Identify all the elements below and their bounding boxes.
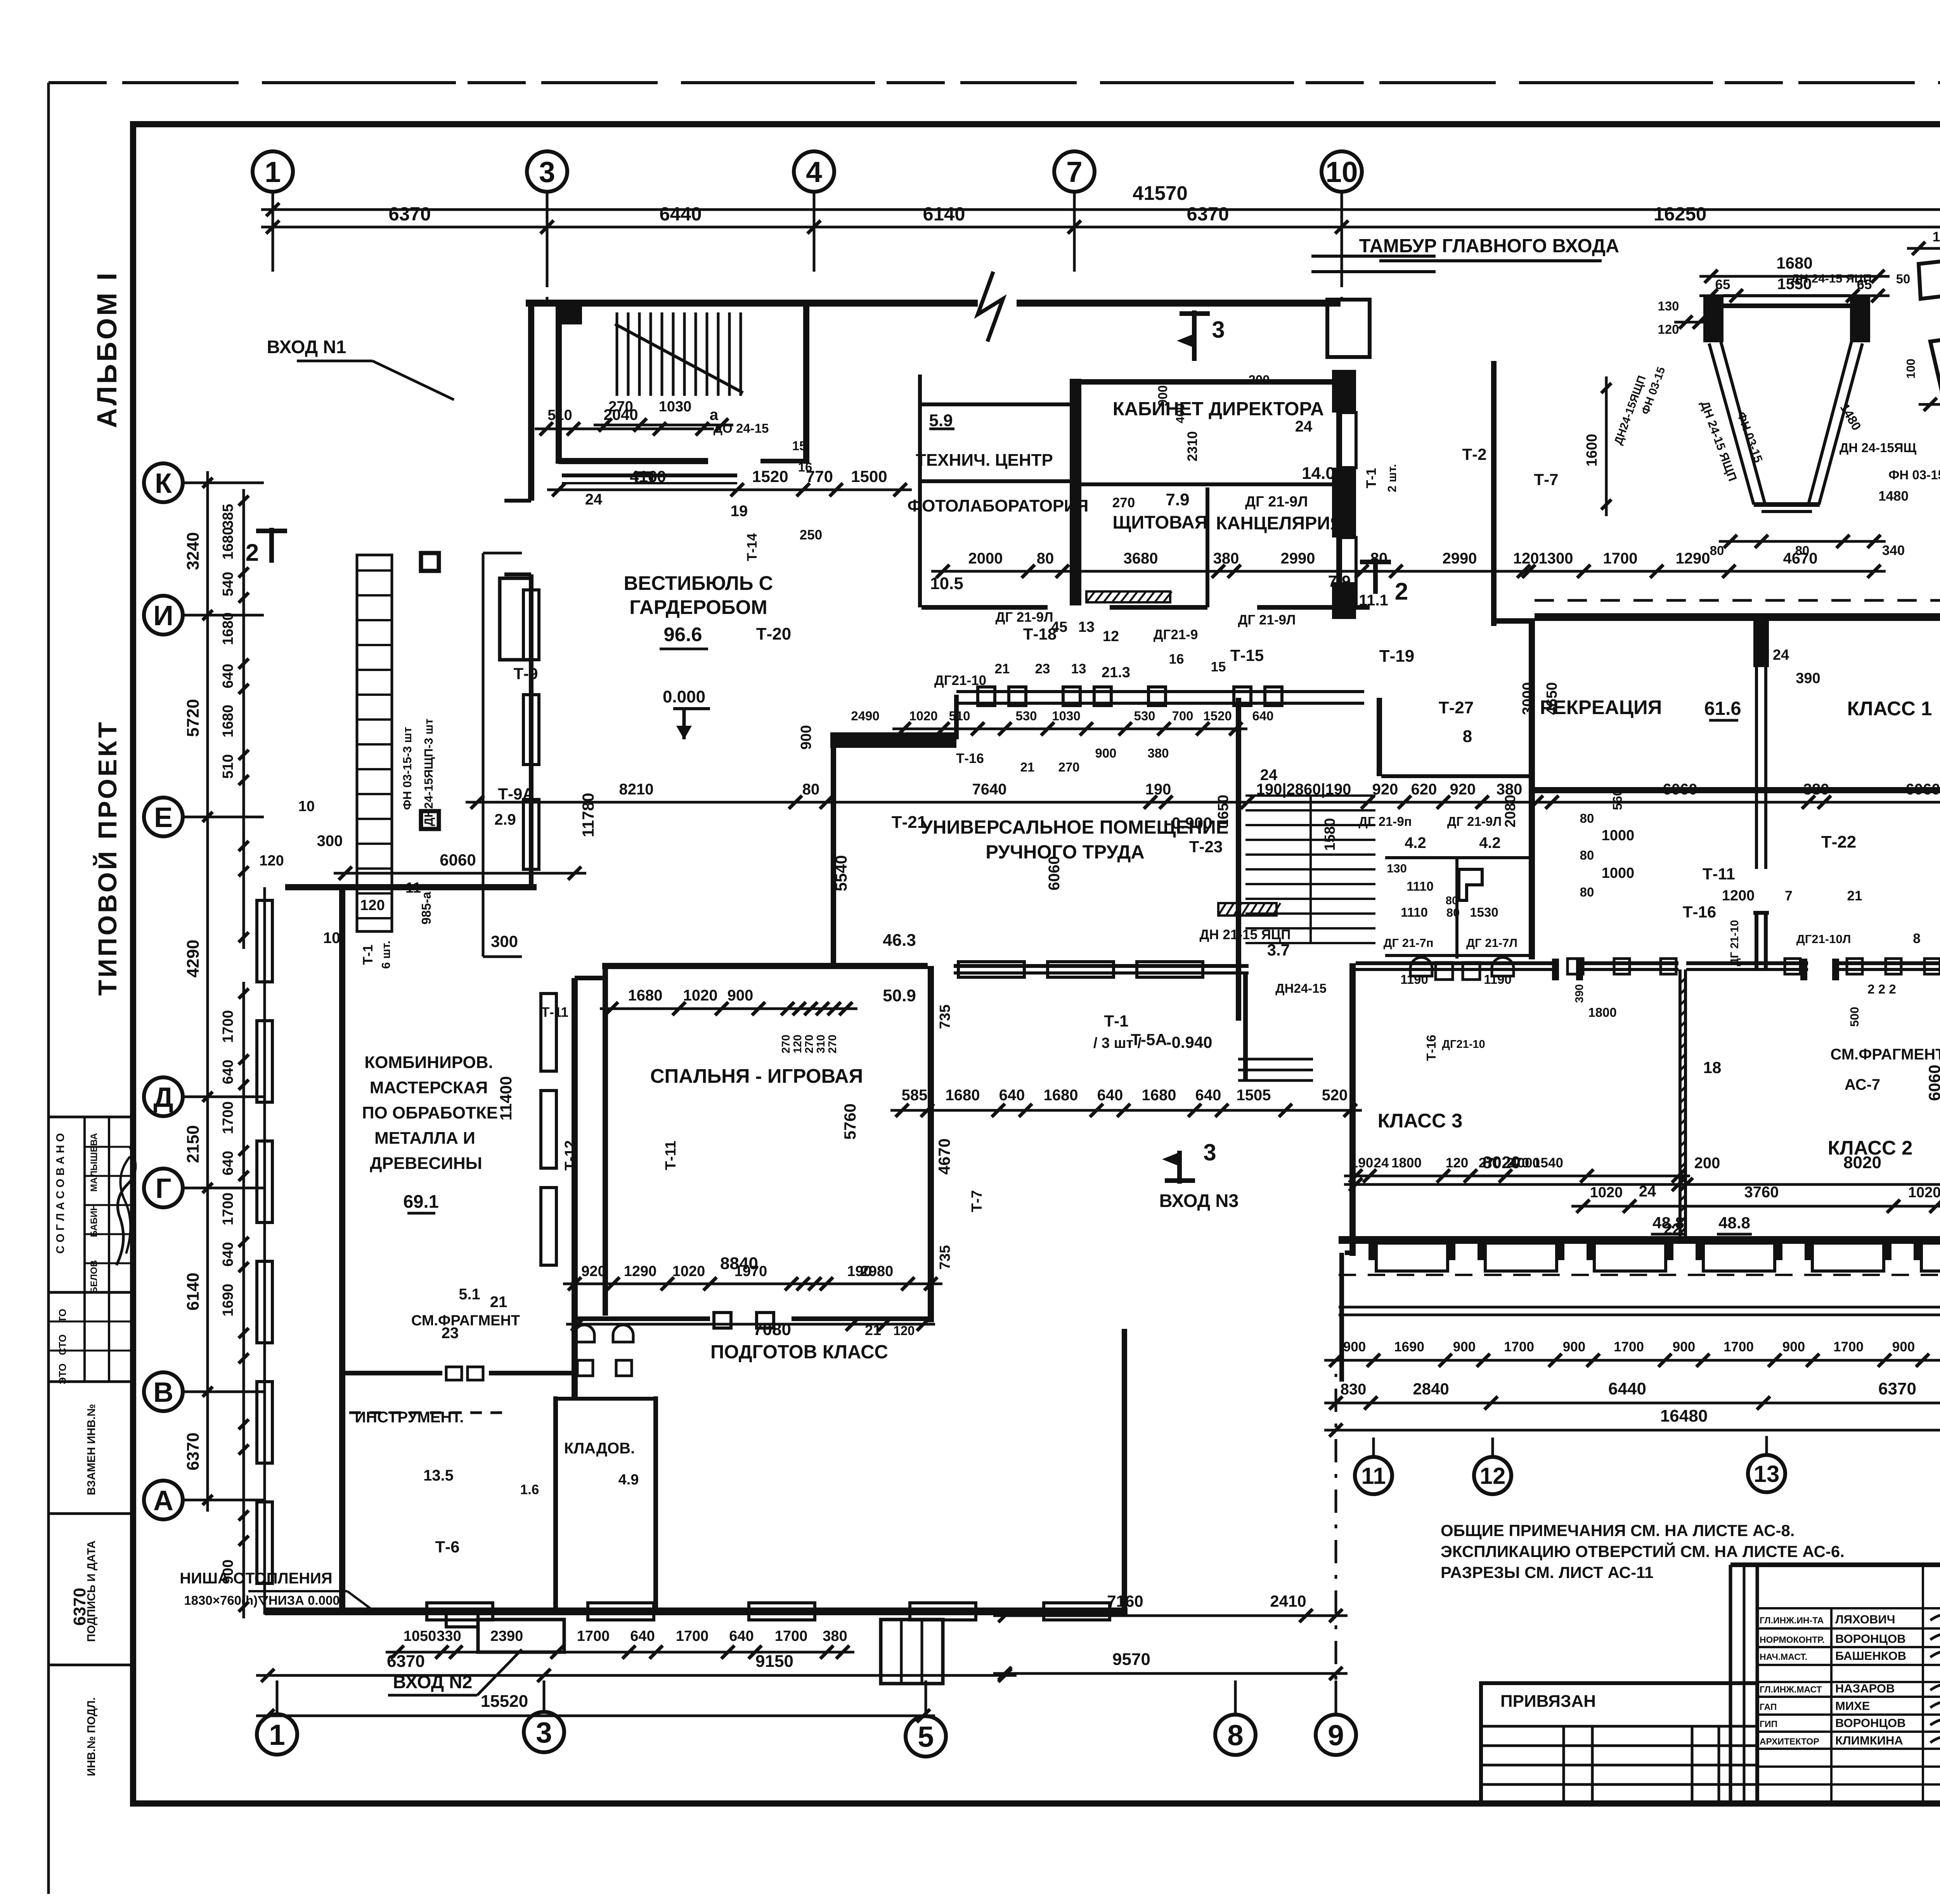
- svg-text:10: 10: [298, 798, 315, 815]
- svg-text:120: 120: [259, 853, 284, 869]
- svg-text:23: 23: [1035, 661, 1050, 676]
- svg-text:80: 80: [1710, 543, 1724, 558]
- svg-text:Т-1: Т-1: [1364, 468, 1379, 489]
- wall: T-11 pier: [1755, 913, 1758, 969]
- svg-text:540: 540: [220, 572, 236, 596]
- svg-text:1020: 1020: [672, 1263, 705, 1280]
- svg-text:Т-16: Т-16: [1424, 1035, 1438, 1061]
- wall: north wing top: [526, 300, 978, 307]
- wall: director/kantselyariya divider: [1080, 482, 1338, 486]
- svg-text:КЛАСС 1: КЛАСС 1: [1847, 697, 1932, 720]
- svg-text:2390: 2390: [490, 1628, 523, 1644]
- svg-text:2 шт.: 2 шт.: [1385, 464, 1399, 492]
- svg-text:СМ.ФРАГМЕНТ: СМ.ФРАГМЕНТ: [1831, 1046, 1940, 1063]
- svg-text:1600: 1600: [1584, 434, 1600, 467]
- svg-text:7.9: 7.9: [1166, 490, 1189, 509]
- svg-text:6140: 6140: [923, 204, 965, 225]
- svg-text:500: 500: [1848, 1007, 1861, 1027]
- svg-text:7080: 7080: [753, 1320, 791, 1339]
- svg-text:15520: 15520: [481, 1692, 528, 1711]
- svg-text:120: 120: [1446, 1155, 1468, 1170]
- wall: admin south: [921, 605, 1048, 610]
- svg-text:190|2860|190: 190|2860|190: [1256, 781, 1351, 798]
- svg-text:1680: 1680: [1044, 1087, 1078, 1104]
- svg-text:ДГ 21-9п: ДГ 21-9п: [1358, 814, 1412, 829]
- svg-text:900: 900: [1782, 1339, 1805, 1354]
- svg-text:2980: 2980: [861, 1263, 894, 1280]
- svg-text:1690: 1690: [1394, 1339, 1424, 1354]
- svg-text:3: 3: [1212, 317, 1225, 343]
- svg-text:9: 9: [1328, 1719, 1344, 1751]
- svg-text:1190: 1190: [1400, 972, 1428, 987]
- svg-text:ГАП: ГАП: [1760, 1702, 1777, 1712]
- axis circle Е: [144, 798, 183, 836]
- svg-text:48.8: 48.8: [1718, 1214, 1750, 1232]
- svg-text:1530: 1530: [1470, 905, 1498, 919]
- svg-text:270: 270: [780, 1035, 792, 1053]
- svg-text:530: 530: [1134, 709, 1155, 723]
- svg-text:6440: 6440: [659, 204, 702, 225]
- svg-text:14.0: 14.0: [1302, 464, 1335, 483]
- svg-text:510: 510: [949, 709, 970, 723]
- svg-text:80: 80: [1580, 811, 1594, 825]
- wall: workshop west line + niches: [263, 887, 266, 1614]
- svg-text:23: 23: [442, 1325, 459, 1342]
- svg-text:6370: 6370: [387, 1652, 425, 1671]
- svg-text:900: 900: [798, 725, 814, 749]
- svg-text:7: 7: [1785, 888, 1792, 903]
- svg-text:Т-9: Т-9: [514, 664, 538, 683]
- svg-text:270: 270: [1112, 495, 1135, 510]
- svg-text:ФОТОЛАБОРАТОРИЯ: ФОТОЛАБОРАТОРИЯ: [908, 496, 1089, 515]
- svg-text:2 2 2: 2 2 2: [1867, 982, 1896, 996]
- dim chain corridor y2861: [890, 1109, 1362, 1112]
- svg-text:1000: 1000: [1602, 865, 1635, 881]
- wall: vhod3 jog + steps: [1243, 973, 1248, 1080]
- svg-text:4.2: 4.2: [1479, 834, 1501, 851]
- svg-text:ДГ 21-7Л: ДГ 21-7Л: [1466, 936, 1517, 950]
- bottom dim block south-east: [1324, 1359, 1940, 1362]
- spalnya west windows: [541, 994, 556, 1071]
- svg-text:1680: 1680: [220, 527, 236, 560]
- universal room top chain: [892, 728, 1247, 730]
- svg-text:1580: 1580: [1322, 818, 1338, 851]
- svg-text:1020: 1020: [1590, 1184, 1623, 1201]
- margin stamp table: [48, 1116, 133, 1118]
- svg-text:ДГ21-10Л: ДГ21-10Л: [1796, 932, 1851, 946]
- svg-text:ДГ21-9: ДГ21-9: [1154, 627, 1198, 642]
- svg-text:24: 24: [585, 491, 603, 508]
- svg-text:200: 200: [1248, 373, 1270, 387]
- axis circle 1 bottom: [257, 1714, 297, 1755]
- svg-text:МЕТАЛЛА И: МЕТАЛЛА И: [374, 1129, 475, 1148]
- svg-text:ДРЕВЕСИНЫ: ДРЕВЕСИНЫ: [370, 1154, 482, 1173]
- wall: spalnya/podgotov divider: [575, 1316, 710, 1321]
- svg-text:250: 250: [800, 527, 822, 543]
- wall: workshop north: [285, 884, 537, 890]
- svg-text:1700: 1700: [220, 1193, 236, 1226]
- svg-text:21: 21: [865, 1322, 881, 1339]
- svg-text:4160: 4160: [630, 467, 666, 486]
- svg-text:985-а: 985-а: [419, 891, 433, 924]
- svg-text:21.3: 21.3: [1102, 664, 1130, 681]
- wall: class3 west: [1349, 963, 1356, 1256]
- svg-text:1520: 1520: [1203, 709, 1232, 723]
- svg-text:5540: 5540: [832, 855, 850, 891]
- svg-text:Т-15: Т-15: [1230, 646, 1264, 664]
- svg-text:1: 1: [265, 156, 281, 188]
- svg-text:ГЛ.ИНЖ.ИН-ТА: ГЛ.ИНЖ.ИН-ТА: [1760, 1615, 1824, 1625]
- svg-text:1.6: 1.6: [520, 1482, 539, 1497]
- svg-text:24: 24: [1295, 418, 1313, 435]
- svg-text:80: 80: [1370, 550, 1388, 567]
- 0.000 level arrow: [682, 710, 686, 739]
- wall: tech centre top: [921, 402, 1071, 406]
- svg-text:4290: 4290: [184, 940, 203, 978]
- svg-text:ИНВ.№ ПОДЛ.: ИНВ.№ ПОДЛ.: [85, 1697, 98, 1776]
- axis circle 1: [253, 151, 293, 192]
- wall: podgotov east: [1122, 1329, 1127, 1611]
- svg-text:СМ.ФРАГМЕНТ: СМ.ФРАГМЕНТ: [411, 1313, 520, 1329]
- svg-text:6370: 6370: [388, 204, 431, 225]
- svg-text:46.3: 46.3: [883, 931, 916, 950]
- wall: link vertical east of admin: [1491, 361, 1497, 626]
- svg-text:120: 120: [360, 897, 385, 914]
- svg-text:3: 3: [536, 1716, 552, 1749]
- dim chain y2067: [466, 801, 1940, 804]
- svg-text:61.6: 61.6: [1704, 698, 1741, 719]
- svg-text:390: 390: [1573, 984, 1586, 1003]
- porch canopy outline: [482, 553, 485, 957]
- svg-text:1030: 1030: [659, 399, 692, 415]
- svg-text:310: 310: [815, 1035, 827, 1053]
- svg-text:ГЛ.ИНЖ.МАСТ: ГЛ.ИНЖ.МАСТ: [1760, 1684, 1822, 1694]
- svg-text:120: 120: [1513, 550, 1539, 567]
- svg-text:И: И: [153, 600, 173, 631]
- svg-text:7640: 7640: [972, 781, 1007, 798]
- nisha leader: [248, 1590, 347, 1592]
- svg-text:КАБИНЕТ ДИРЕКТОРА: КАБИНЕТ ДИРЕКТОРА: [1113, 399, 1324, 420]
- svg-text:10.5: 10.5: [930, 574, 963, 593]
- svg-text:Т-16: Т-16: [956, 751, 984, 766]
- svg-text:2: 2: [246, 539, 259, 566]
- svg-text:Т-11: Т-11: [541, 1005, 568, 1020]
- wall: admin partition tech-centre west: [918, 375, 922, 607]
- svg-text:МИХЕ: МИХЕ: [1835, 1699, 1870, 1713]
- svg-text:ЭКСПЛИКАЦИЮ ОТВЕРСТИЙ СМ. НА Л: ЭКСПЛИКАЦИЮ ОТВЕРСТИЙ СМ. НА ЛИСТЕ АС-6.: [1441, 1542, 1845, 1561]
- svg-text:13: 13: [1071, 661, 1086, 676]
- axis circle 8 bottom: [1215, 1715, 1256, 1755]
- svg-text:900: 900: [1673, 1339, 1695, 1354]
- wall: class divider shaft (hatched): [1678, 969, 1682, 1240]
- svg-text:2: 2: [1395, 578, 1408, 605]
- svg-text:6440: 6440: [1608, 1379, 1646, 1398]
- svg-text:6060: 6060: [1906, 781, 1940, 798]
- svg-text:ИНСТРУМЕНТ.: ИНСТРУМЕНТ.: [355, 1409, 464, 1426]
- svg-text:ДГ 21-7п: ДГ 21-7п: [1383, 936, 1433, 950]
- T-6 niche: [446, 1611, 478, 1627]
- svg-text:21: 21: [1020, 760, 1035, 774]
- svg-text:Т-12: Т-12: [562, 1140, 579, 1170]
- stair hatched strip: [1218, 903, 1277, 916]
- south windows east wing: [1376, 1243, 1448, 1271]
- axis circle 10: [1322, 151, 1362, 192]
- wall: stair hall east: [1377, 698, 1382, 776]
- svg-text:МАЛЫШЕВА: МАЛЫШЕВА: [89, 1133, 99, 1192]
- svg-text:69.1: 69.1: [403, 1191, 438, 1212]
- svg-text:2990: 2990: [1443, 550, 1477, 567]
- svg-text:ДГ 21-10: ДГ 21-10: [1729, 920, 1741, 966]
- svg-text:ВОРОНЦОВ: ВОРОНЦОВ: [1835, 1716, 1906, 1730]
- svg-text:640: 640: [220, 1151, 236, 1175]
- svg-text:Е: Е: [154, 802, 173, 833]
- svg-text:6060: 6060: [1046, 856, 1063, 891]
- svg-text:4000: 4000: [1510, 1155, 1540, 1170]
- svg-text:ФН 03-15-3 шт: ФН 03-15-3 шт: [400, 727, 414, 810]
- svg-text:8: 8: [1913, 931, 1920, 946]
- svg-text:13: 13: [1754, 1461, 1780, 1487]
- svg-text:НАЧ.МАСТ.: НАЧ.МАСТ.: [1760, 1652, 1807, 1662]
- svg-text:510: 510: [547, 407, 572, 423]
- svg-text:21: 21: [490, 1294, 508, 1311]
- svg-text:270: 270: [608, 399, 633, 415]
- svg-text:2840: 2840: [1413, 1380, 1449, 1398]
- svg-text:65: 65: [1715, 277, 1730, 292]
- wall: vestibule west: [528, 300, 534, 501]
- svg-text:ТИПОВОЙ ПРОЕКТ: ТИПОВОЙ ПРОЕКТ: [93, 720, 122, 995]
- svg-text:300: 300: [491, 932, 518, 950]
- main entrance tambour on plan: [1327, 300, 1370, 357]
- svg-text:13: 13: [1078, 619, 1095, 635]
- dim chain spalnya y2599: [600, 1007, 857, 1010]
- svg-text:1300: 1300: [1539, 550, 1573, 567]
- door lintel piers classes: [1552, 959, 1559, 980]
- margin signatures scribble: [116, 1147, 135, 1265]
- svg-text:120: 120: [1658, 322, 1679, 336]
- svg-text:21: 21: [1847, 888, 1862, 903]
- section flag 3 top: [1192, 310, 1197, 361]
- svg-text:900: 900: [727, 987, 753, 1004]
- svg-text:СТО: СТО: [57, 1334, 68, 1355]
- svg-text:9150: 9150: [755, 1652, 793, 1671]
- dim chain admin y1472: [931, 570, 1886, 573]
- wall: universal room north heavy: [830, 732, 956, 748]
- wall: spalnya east: [928, 966, 934, 1322]
- wall: east wing top: [1535, 613, 1940, 621]
- svg-text:1110: 1110: [1406, 879, 1434, 893]
- svg-text:560: 560: [1610, 789, 1625, 810]
- wall: recreation/class1 pier: [1753, 621, 1769, 667]
- svg-text:ВХОД N3: ВХОД N3: [1159, 1190, 1239, 1211]
- svg-text:ПО ОБРАБОТКЕ: ПО ОБРАБОТКЕ: [362, 1103, 498, 1122]
- entrance 2 porch: [478, 1620, 564, 1652]
- cloakroom counter: [562, 473, 737, 477]
- svg-text:ЛЯХОВИЧ: ЛЯХОВИЧ: [1835, 1613, 1895, 1626]
- svg-text:24: 24: [1374, 1155, 1389, 1170]
- svg-text:Т-11: Т-11: [1703, 865, 1735, 883]
- svg-text:ДГ 21-9Л: ДГ 21-9Л: [1238, 612, 1296, 628]
- svg-text:Т-1: Т-1: [1104, 1012, 1129, 1030]
- svg-text:7: 7: [1066, 156, 1083, 188]
- outer thin border left: [47, 83, 50, 1894]
- svg-text:1700: 1700: [1614, 1339, 1644, 1354]
- svg-text:735: 735: [937, 1245, 953, 1269]
- svg-text:1500: 1500: [851, 467, 887, 486]
- svg-text:МАСТЕРСКАЯ: МАСТЕРСКАЯ: [370, 1078, 488, 1097]
- svg-text:530: 530: [1015, 709, 1037, 723]
- svg-text:8210: 8210: [619, 781, 654, 798]
- svg-text:НАЗАРОВ: НАЗАРОВ: [1835, 1682, 1895, 1695]
- section flag 3 bottom: [1177, 1151, 1182, 1184]
- svg-text:Т-7: Т-7: [969, 1190, 985, 1212]
- svg-text:ВХОД N1: ВХОД N1: [267, 336, 346, 357]
- svg-text:ГИП: ГИП: [1760, 1719, 1777, 1729]
- wall: workshop/instrument divider: [345, 1371, 442, 1375]
- svg-text:1505: 1505: [1237, 1087, 1271, 1104]
- svg-text:4.2: 4.2: [1405, 834, 1426, 851]
- wall: east wing south: [1339, 1236, 1940, 1244]
- svg-text:9570: 9570: [1112, 1650, 1150, 1669]
- svg-text:270: 270: [826, 1035, 839, 1053]
- axis circle 5 bottom: [906, 1716, 946, 1757]
- svg-text:24: 24: [1773, 647, 1789, 663]
- svg-text:900: 900: [1095, 746, 1116, 760]
- svg-text:15: 15: [792, 439, 807, 453]
- entrance 1 tambour: [500, 578, 531, 660]
- svg-text:900: 900: [1343, 1339, 1366, 1354]
- svg-text:1520: 1520: [752, 467, 788, 486]
- title block main outline: [1730, 1562, 1940, 1567]
- svg-text:-0.940: -0.940: [1166, 1033, 1212, 1051]
- svg-text:3240: 3240: [184, 532, 203, 570]
- svg-text:4.9: 4.9: [618, 1472, 639, 1488]
- svg-text:80: 80: [1340, 371, 1353, 385]
- wall: workshop east: [572, 978, 578, 1399]
- svg-text:КОМБИНИРОВ.: КОМБИНИРОВ.: [364, 1053, 493, 1072]
- svg-text:РУЧНОГО ТРУДА: РУЧНОГО ТРУДА: [986, 842, 1145, 863]
- svg-text:340: 340: [1882, 543, 1905, 558]
- svg-text:БАШЕНКОВ: БАШЕНКОВ: [1835, 1649, 1906, 1663]
- svg-text:510: 510: [220, 754, 236, 779]
- porch columns: [421, 553, 439, 571]
- svg-text:ДН24-15: ДН24-15: [1275, 981, 1327, 995]
- svg-text:1830×760(h)⛛НИЗА 0.000: 1830×760(h)⛛НИЗА 0.000: [184, 1593, 339, 1607]
- wall: central heavy (shchitovaya west): [1070, 379, 1081, 605]
- svg-text:0.000: 0.000: [663, 687, 705, 706]
- svg-text:270: 270: [1479, 1155, 1501, 1170]
- hatched floor strip near shchitovaya: [1086, 591, 1170, 602]
- svg-text:130: 130: [1387, 862, 1407, 875]
- top overall dimension line 41570: [261, 208, 1940, 211]
- svg-text:900: 900: [1563, 1339, 1585, 1354]
- class3 top dims: [1344, 1175, 1690, 1177]
- top chain dimension line: [261, 226, 1940, 229]
- svg-text:200: 200: [1694, 1155, 1720, 1172]
- svg-text:ДГ 21-9Л: ДГ 21-9Л: [1245, 494, 1308, 510]
- svg-text:ВЗАМЕН ИНВ.№: ВЗАМЕН ИНВ.№: [85, 1404, 98, 1495]
- svg-text:Т-20: Т-20: [756, 624, 791, 643]
- svg-text:16: 16: [798, 460, 812, 474]
- svg-text:385: 385: [220, 504, 236, 528]
- svg-text:РАЗРЕЗЫ СМ. ЛИСТ АС-11: РАЗРЕЗЫ СМ. ЛИСТ АС-11: [1441, 1563, 1653, 1581]
- svg-text:1020: 1020: [683, 987, 718, 1004]
- svg-text:10: 10: [323, 929, 341, 947]
- svg-text:1050: 1050: [404, 1628, 436, 1644]
- svg-text:80: 80: [1446, 906, 1460, 919]
- svg-text:Т-19: Т-19: [1379, 647, 1414, 666]
- svg-text:6060: 6060: [440, 851, 476, 869]
- wall: classes north w/ doors: [1356, 961, 1552, 965]
- svg-text:41570: 41570: [1133, 182, 1188, 204]
- axis circle 3: [527, 151, 567, 192]
- svg-text:1700: 1700: [1833, 1339, 1864, 1354]
- svg-text:5720: 5720: [184, 699, 203, 737]
- svg-text:5760: 5760: [841, 1103, 859, 1139]
- corridor windows row: [958, 962, 1024, 977]
- svg-text:КЛАДОВ.: КЛАДОВ.: [564, 1440, 635, 1457]
- svg-text:Т-6: Т-6: [435, 1538, 460, 1556]
- svg-text:Д: Д: [153, 1082, 173, 1113]
- svg-text:1700: 1700: [577, 1628, 610, 1644]
- wc fixtures: [1410, 957, 1432, 976]
- svg-text:390: 390: [1796, 670, 1820, 687]
- svg-text:1200: 1200: [1722, 888, 1755, 904]
- svg-text:7.9: 7.9: [1328, 572, 1351, 590]
- svg-text:АЛЬБОМ I: АЛЬБОМ I: [92, 271, 123, 428]
- stair room walls: [556, 300, 562, 464]
- svg-text:В: В: [153, 1377, 173, 1408]
- axis circle Г: [144, 1169, 183, 1207]
- svg-text:640: 640: [729, 1628, 753, 1644]
- svg-text:80: 80: [1037, 550, 1054, 567]
- privyazan box: [1481, 1683, 1757, 1803]
- svg-text:380: 380: [1803, 781, 1829, 798]
- svg-text:640: 640: [1195, 1087, 1221, 1104]
- svg-text:80: 80: [1580, 848, 1594, 862]
- wall: wc east / east wing west: [1529, 621, 1535, 959]
- svg-text:НОРМОКОНТР.: НОРМОКОНТР.: [1760, 1635, 1824, 1645]
- svg-text:80: 80: [1446, 895, 1458, 907]
- svg-text:380: 380: [1213, 550, 1239, 567]
- svg-text:12: 12: [1103, 628, 1119, 645]
- svg-text:3: 3: [539, 156, 555, 188]
- dim chain vestibule y1262: [547, 489, 912, 491]
- svg-text:ЩИТОВАЯ: ЩИТОВАЯ: [1112, 512, 1207, 532]
- svg-text:15: 15: [1211, 659, 1226, 675]
- svg-text:6060: 6060: [1663, 781, 1697, 798]
- svg-text:45: 45: [1051, 619, 1067, 635]
- svg-text:1650: 1650: [1215, 795, 1232, 828]
- svg-text:900: 900: [1155, 385, 1170, 406]
- svg-text:ДН 24-15 ЯЦП: ДН 24-15 ЯЦП: [1791, 272, 1872, 285]
- svg-text:Г: Г: [156, 1173, 171, 1204]
- svg-text:130: 130: [1658, 299, 1679, 313]
- svg-text:1680: 1680: [628, 987, 663, 1004]
- svg-text:ВОРОНЦОВ: ВОРОНЦОВ: [1835, 1632, 1906, 1646]
- axis circle 3 bottom: [524, 1712, 564, 1752]
- svg-text:330: 330: [436, 1628, 461, 1644]
- svg-text:ФН 03-15: ФН 03-15: [1888, 468, 1940, 482]
- wall: wc block outline: [1381, 774, 1529, 778]
- svg-text:1: 1: [269, 1718, 285, 1751]
- svg-text:1680: 1680: [1776, 254, 1812, 272]
- axis circle К: [144, 463, 183, 502]
- svg-text:8020: 8020: [1843, 1153, 1881, 1172]
- svg-text:1700: 1700: [775, 1628, 808, 1644]
- wall: tech centre bottom: [921, 479, 1071, 483]
- svg-text:3680: 3680: [1124, 550, 1158, 567]
- svg-text:400: 400: [1173, 403, 1187, 423]
